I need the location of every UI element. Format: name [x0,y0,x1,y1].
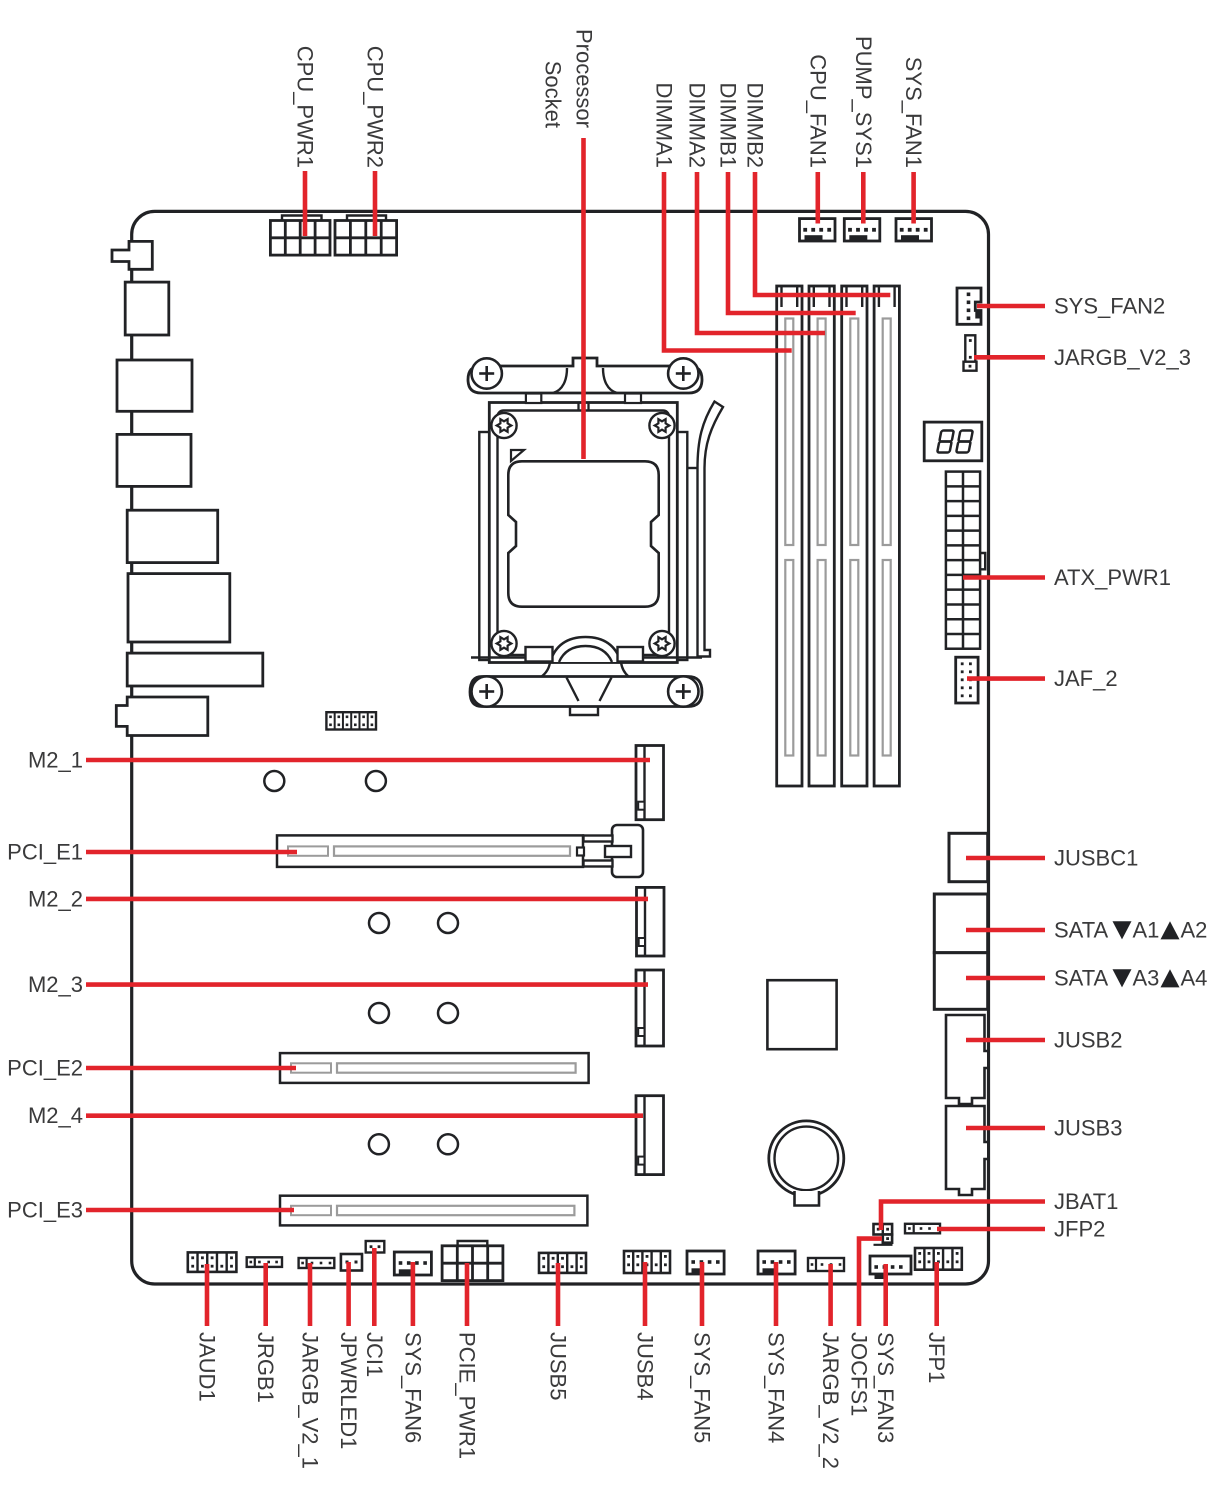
svg-text:M2_4: M2_4 [28,1103,83,1128]
svg-text:JBAT1: JBAT1 [1054,1189,1118,1214]
svg-text:SYS_FAN6: SYS_FAN6 [400,1332,425,1443]
svg-text:JUSB4: JUSB4 [633,1332,658,1400]
svg-text:PCIE_PWR1: PCIE_PWR1 [455,1332,480,1459]
svg-text:JUSBC1: JUSBC1 [1054,846,1138,871]
svg-text:PCI_E2: PCI_E2 [7,1056,83,1081]
svg-text:M2_2: M2_2 [28,886,83,911]
svg-text:SATA: SATA [1054,966,1109,991]
svg-text:PUMP_SYS1: PUMP_SYS1 [851,36,876,168]
svg-text:SYS_FAN2: SYS_FAN2 [1054,294,1165,319]
svg-text:Processor: Processor [572,29,597,128]
svg-text:SYS_FAN3: SYS_FAN3 [873,1332,898,1443]
svg-text:JRGB1: JRGB1 [253,1332,278,1403]
svg-text:SATA: SATA [1054,918,1109,943]
svg-text:JARGB_V2_1: JARGB_V2_1 [298,1332,323,1469]
svg-text:JARGB_V2_2: JARGB_V2_2 [818,1332,843,1469]
svg-text:JAF_2: JAF_2 [1054,666,1118,691]
svg-text:JOCFS1: JOCFS1 [847,1332,872,1416]
svg-text:A4: A4 [1181,966,1208,991]
svg-text:JUSB3: JUSB3 [1054,1116,1122,1141]
svg-text:CPU_PWR1: CPU_PWR1 [293,46,318,168]
svg-text:DIMMB1: DIMMB1 [716,82,741,168]
svg-text:JPWRLED1: JPWRLED1 [336,1332,361,1449]
svg-text:JARGB_V2_3: JARGB_V2_3 [1054,345,1191,370]
svg-text:JUSB2: JUSB2 [1054,1028,1122,1053]
svg-text:M2_1: M2_1 [28,748,83,773]
svg-text:JUSB5: JUSB5 [546,1332,571,1400]
svg-text:Socket: Socket [541,61,566,128]
svg-text:DIMMB2: DIMMB2 [743,82,768,168]
svg-text:ATX_PWR1: ATX_PWR1 [1054,565,1171,590]
svg-text:JAUD1: JAUD1 [195,1332,220,1402]
svg-text:SYS_FAN1: SYS_FAN1 [901,57,926,168]
svg-text:A1: A1 [1133,918,1160,943]
svg-text:DIMMA2: DIMMA2 [685,82,710,168]
svg-text:SYS_FAN5: SYS_FAN5 [690,1332,715,1443]
svg-text:DIMMA1: DIMMA1 [652,82,677,168]
svg-text:CPU_FAN1: CPU_FAN1 [805,54,830,168]
svg-text:JCI1: JCI1 [362,1332,387,1377]
svg-text:A3: A3 [1133,966,1160,991]
svg-text:CPU_PWR2: CPU_PWR2 [363,46,388,168]
svg-text:PCI_E3: PCI_E3 [7,1198,83,1223]
svg-text:JFP2: JFP2 [1054,1217,1105,1242]
svg-text:SYS_FAN4: SYS_FAN4 [764,1332,789,1443]
svg-text:A2: A2 [1181,918,1208,943]
svg-text:JFP1: JFP1 [924,1332,949,1383]
svg-text:M2_3: M2_3 [28,972,83,997]
svg-text:PCI_E1: PCI_E1 [7,840,83,865]
